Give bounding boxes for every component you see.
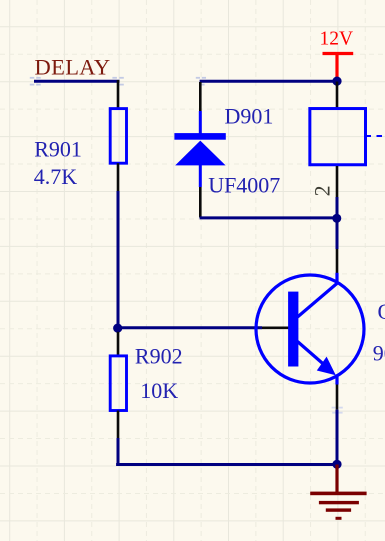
pin Q901.C — [336, 249, 339, 273]
relay coil box K901 — [310, 109, 366, 165]
svg-text:10K: 10K — [140, 378, 178, 403]
pin K901.2 — [336, 166, 339, 197]
wire node C down — [336, 218, 339, 249]
svg-text:UF4007: UF4007 — [208, 172, 280, 197]
pin R901.2 — [117, 163, 120, 191]
wire end/corner markers — [30, 77, 206, 86]
svg-text:12V: 12V — [320, 28, 354, 49]
pin K901.1 — [336, 82, 339, 110]
wire coil to node C — [336, 197, 339, 219]
wire R902 to bottom rail — [117, 438, 120, 465]
ground — [310, 465, 366, 520]
wire emitter to gnd node — [336, 410, 339, 465]
wire R901 to node B — [117, 191, 120, 329]
dashed link stub — [367, 135, 383, 137]
svg-text:R901: R901 — [34, 137, 82, 162]
wire bottom rail — [116, 463, 337, 466]
pin R902.1 — [117, 332, 120, 356]
pin Q901.B — [262, 326, 289, 329]
junction gnd node — [332, 460, 341, 469]
svg-text:9013: 9013 — [373, 341, 385, 366]
svg-text:4.7K: 4.7K — [34, 164, 78, 189]
pin Q901.E — [336, 385, 339, 410]
junction 12V node — [332, 77, 341, 86]
resistor R902 — [110, 356, 126, 411]
transistor Q901 — [256, 273, 364, 385]
wire base net — [118, 326, 262, 329]
junction node C — [332, 214, 341, 223]
resistor R901 — [110, 109, 126, 164]
pin R901.1 — [117, 80, 120, 108]
junction node B — [113, 324, 122, 333]
diode D901 — [174, 82, 225, 218]
pin R902.2 — [117, 411, 120, 439]
svg-text:Q901: Q901 — [378, 299, 385, 324]
wire node C to diode — [200, 216, 337, 219]
svg-text:2: 2 — [310, 185, 335, 196]
svg-text:D901: D901 — [225, 103, 274, 128]
wire DELAY net — [34, 80, 120, 83]
wire 12V rail — [200, 80, 337, 83]
svg-text:R902: R902 — [135, 344, 183, 369]
svg-text:DELAY: DELAY — [35, 54, 111, 79]
